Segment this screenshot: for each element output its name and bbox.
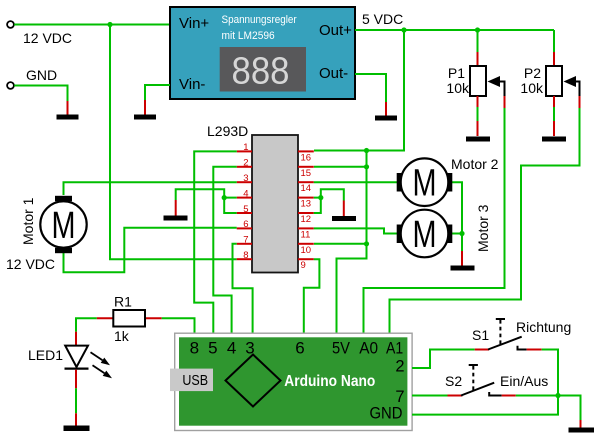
svg-text:USB: USB: [182, 372, 208, 389]
svg-text:Out-: Out-: [319, 65, 348, 82]
wire Out+ 5VDC rail: [355, 29, 554, 31]
pin 12: [298, 213, 314, 225]
wire Motor2 right and Motor3 right to ground: [452, 182, 463, 233]
IC L293D body: [252, 135, 298, 273]
pin 1: [237, 142, 252, 153]
svg-text:Out+: Out+: [319, 22, 352, 39]
svg-text:Motor 3: Motor 3: [475, 204, 491, 252]
pin 10: [298, 244, 314, 256]
svg-text:7: 7: [395, 388, 404, 406]
motor M3: [397, 210, 453, 258]
junction 5VDC at P1: [475, 27, 480, 32]
wire L293D pins12+13 to right ground: [314, 198, 321, 213]
svg-text:GND: GND: [370, 405, 403, 423]
svg-text:11: 11: [301, 229, 311, 240]
svg-text:16: 16: [301, 152, 312, 163]
junction pin15 row: [364, 164, 369, 169]
svg-text:6: 6: [243, 219, 248, 230]
svg-text:M: M: [52, 205, 76, 247]
junction pin13 row: [318, 195, 323, 200]
junction 12VDC drop: [107, 22, 112, 27]
svg-text:5V: 5V: [332, 339, 351, 358]
svg-text:14: 14: [301, 183, 312, 194]
svg-text:LED1: LED1: [28, 347, 63, 363]
svg-text:mit LM2596: mit LM2596: [222, 30, 275, 42]
svg-text:9: 9: [301, 260, 306, 271]
junction switches: [555, 393, 560, 398]
wire L293D pin11 to Motor3 left: [314, 228, 397, 233]
wire 5VDC down to pin16 row: [314, 30, 404, 151]
wire 12VDC down to L293D pin 8: [110, 25, 237, 260]
pin 8: [237, 250, 252, 261]
wire L293D pin3 to Motor1 top: [64, 182, 237, 195]
svg-text:4: 4: [227, 339, 236, 358]
svg-text:5 VDC: 5 VDC: [362, 11, 403, 27]
pin 7: [237, 235, 252, 246]
svg-text:Richtung: Richtung: [516, 319, 571, 335]
svg-text:S1: S1: [472, 327, 489, 343]
pin 4: [237, 188, 252, 199]
ground Out-: [375, 102, 397, 121]
ground switches: [569, 420, 595, 433]
wire LED1 to ground: [75, 388, 77, 413]
svg-text:12 VDC: 12 VDC: [23, 30, 72, 46]
wire Arduino pin2 to S1: [412, 350, 475, 369]
svg-text:Motor 2: Motor 2: [451, 156, 499, 172]
ground L293D pins 4-5: [164, 200, 188, 221]
wire L293D pins4+5 to left ground: [224, 198, 237, 213]
motor M1: [40, 196, 86, 253]
svg-text:8: 8: [243, 250, 248, 261]
svg-text:5: 5: [243, 204, 248, 215]
svg-text:7: 7: [243, 235, 248, 246]
wire pin10 to 5V vertical: [314, 243, 367, 245]
svg-text:R1: R1: [114, 294, 132, 310]
pin 5: [237, 204, 252, 215]
pin 11: [298, 228, 314, 240]
svg-text:1k: 1k: [114, 328, 130, 344]
LED LED1: [65, 332, 113, 389]
ground P2: [542, 137, 566, 142]
switch S1: [475, 319, 542, 350]
svg-text:888: 888: [232, 51, 290, 93]
USB connector: [170, 369, 213, 392]
pin 6: [237, 219, 252, 230]
junction 5VDC at x404: [401, 27, 406, 32]
motor M2: [397, 158, 453, 206]
wire R1 left to LED1: [76, 318, 97, 331]
svg-text:GND: GND: [26, 67, 57, 83]
junction pin4 row: [222, 195, 227, 200]
svg-text:A1: A1: [386, 339, 403, 358]
svg-text:A0: A0: [359, 339, 378, 358]
svg-text:P2: P2: [524, 65, 541, 81]
pin 9: [298, 259, 314, 271]
ground motors 2-3: [451, 251, 475, 271]
wire P2 wiper to A1: [390, 108, 580, 335]
wire P1 wiper to A0: [364, 108, 505, 335]
ground L293D pins 12-13: [332, 201, 356, 222]
svg-text:M: M: [413, 163, 437, 205]
svg-text:2: 2: [395, 358, 404, 376]
wire Motor1 bottom to L293D pin6: [64, 228, 237, 272]
svg-text:3: 3: [243, 173, 248, 184]
ground Vin-: [134, 100, 156, 120]
Arduino Nano board: [175, 333, 412, 430]
ground P1: [466, 137, 490, 142]
resistor R1: [97, 294, 162, 345]
svg-text:2: 2: [243, 158, 248, 169]
junction motor3 right: [459, 231, 464, 236]
junction pin10 row: [364, 241, 369, 246]
svg-text:M: M: [413, 214, 437, 256]
svg-text:15: 15: [301, 168, 312, 179]
pin 16: [298, 151, 314, 163]
pin 15: [298, 167, 314, 179]
wire L293D pin2 to Arduino 4: [213, 167, 236, 335]
svg-text:12: 12: [301, 214, 312, 225]
wire S2 to junction: [516, 395, 558, 397]
wire R1 right to Arduino 8: [162, 318, 195, 335]
svg-text:Arduino Nano: Arduino Nano: [284, 373, 375, 390]
wire L293D pin7 to Arduino 3: [233, 244, 253, 335]
pin 3: [237, 173, 252, 184]
svg-text:Vin-: Vin-: [179, 76, 205, 93]
svg-text:13: 13: [301, 199, 312, 210]
svg-text:10: 10: [301, 245, 312, 256]
svg-text:Spannungsregler: Spannungsregler: [222, 14, 297, 26]
wire L293D pin1 to Arduino 5: [194, 151, 237, 335]
svg-text:1: 1: [243, 142, 248, 153]
wire Out- to ground: [355, 74, 386, 102]
voltage regulator module LM2596: [170, 7, 355, 99]
wire junction to ground: [558, 396, 581, 421]
terminal 12VDC: [7, 21, 14, 28]
wire S1 to junction: [542, 350, 558, 396]
switch S2: [448, 365, 516, 396]
pin 14: [298, 182, 314, 194]
wire Arduino GND to junction: [412, 396, 558, 415]
wire GND terminal to ground: [14, 86, 67, 102]
potentiometer P2: [520, 30, 579, 136]
wire Arduino pin7 to S2: [412, 395, 448, 397]
ground LED1: [64, 413, 90, 431]
wire 12VDC to Vin+: [14, 24, 170, 26]
svg-text:4: 4: [243, 188, 248, 199]
svg-text:Ein/Aus: Ein/Aus: [500, 373, 548, 389]
svg-text:L293D: L293D: [207, 123, 248, 139]
svg-text:5: 5: [208, 339, 217, 358]
terminal GND: [7, 82, 14, 89]
svg-text:10k: 10k: [446, 80, 470, 96]
wire L293D pin14 to Motor2 left: [314, 181, 397, 183]
svg-text:8: 8: [190, 339, 199, 358]
pin 13: [298, 198, 314, 210]
wire L293D pin9 to Arduino 6: [304, 259, 320, 335]
pin 2: [237, 158, 252, 169]
junction pin16 row: [364, 148, 369, 153]
wire 5V vertical to Arduino 5V: [337, 151, 367, 336]
potentiometer P1: [446, 30, 504, 136]
svg-text:12 VDC: 12 VDC: [6, 256, 55, 272]
svg-text:Vin+: Vin+: [179, 15, 209, 32]
svg-text:10k: 10k: [520, 80, 544, 96]
svg-text:S2: S2: [445, 373, 462, 389]
wire pin15 to 5V vertical: [314, 166, 367, 168]
ground GND terminal: [57, 101, 79, 120]
wire Vin- to ground: [145, 85, 170, 100]
svg-text:6: 6: [295, 339, 304, 358]
svg-text:P1: P1: [448, 65, 465, 81]
svg-text:Motor 1: Motor 1: [20, 197, 36, 245]
diamond logo: [226, 355, 281, 407]
